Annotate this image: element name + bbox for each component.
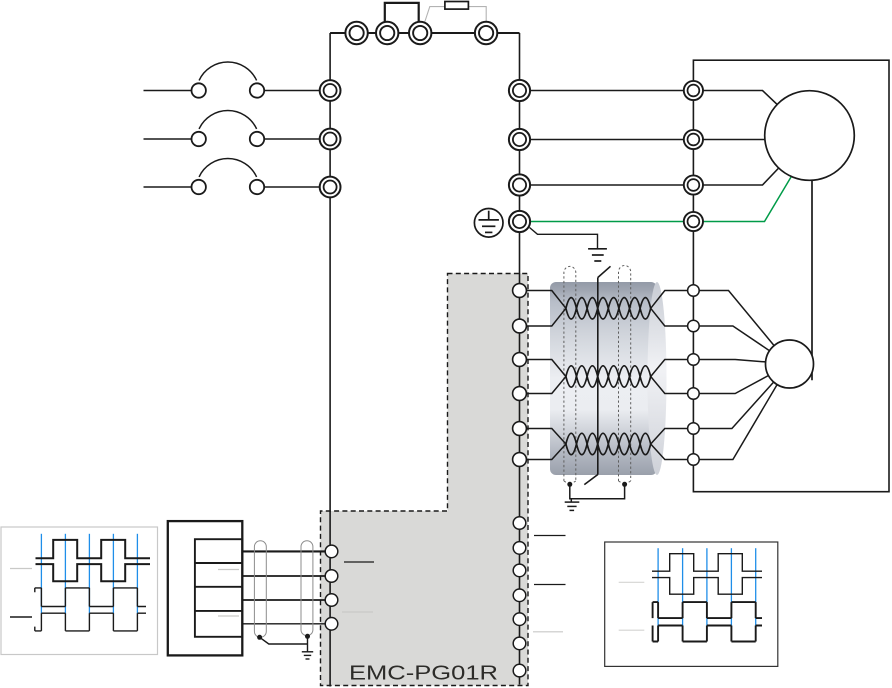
motor enclosure box [693,60,889,492]
protective earth symbol (circled) [474,209,503,238]
breaker contacts row 1 [192,83,206,97]
ground symbol at E wire [588,249,607,261]
wire: PG signal /B [520,376,769,394]
twisted pair coil row 3 [566,433,651,454]
DC bus terminal 1 [345,22,367,44]
wire: clamps to ground [260,636,308,652]
jumper between DC bus terminals 2 and 3 [385,3,419,33]
card pin label line 3 [534,535,566,537]
terminal W [509,174,530,195]
connector pin label line b [218,615,239,617]
wire: output phase V to motor [520,139,765,141]
wire: input line 1 (R) [144,90,320,92]
encoder connector pin block [195,539,242,637]
wire: PG signal B [520,360,766,377]
encoder terminal /B [688,388,700,400]
card terminal A [513,284,527,298]
wire: E terminal to earth [530,228,598,249]
waveform diagram box (right, card output) [605,542,778,666]
shield drain wire left (dashed loop) [564,266,576,483]
waveform B//B transition edges (left box) [41,588,137,631]
wire: output terminal column vertical [519,33,521,685]
breaker arc row 3 [199,159,257,177]
motor terminal E [684,212,703,231]
wire: PG power DCM [520,385,778,460]
DC bus terminal 3 [409,22,431,44]
terminal T [320,177,341,198]
card terminal /B [513,387,527,401]
encoder terminal VP [688,423,700,435]
brake resistor [445,2,469,10]
card output terminal 3 [513,564,526,577]
wire: output phase U to motor [520,91,778,105]
motor terminal U [684,81,703,100]
motor shaft [811,180,813,380]
svg-text:EMC-PG01R: EMC-PG01R [349,663,498,685]
card output terminal 2 [513,542,526,555]
breaker contacts row 2 [192,132,206,146]
shield drain wire right (dashed loop) [619,266,631,484]
shield grounding wire (solid) with switch [584,266,610,484]
DC bus terminal 4 [475,22,497,44]
motor terminal V [684,130,703,149]
card terminal B/O2 [325,618,338,631]
connector pin label line a [218,569,239,571]
encoder terminal A [688,285,700,297]
wire: output phase W to motor [520,168,779,185]
encoder connector housing [168,521,243,655]
ground symbol at shield [565,502,580,510]
wire: green ground wire E to motor [529,176,791,221]
twisted pair coil row 1 [566,298,651,319]
card pin label line 2 [342,611,373,613]
card output terminal 6 [513,637,526,650]
waveform B//B transition edges (right box) [658,602,756,641]
timing lines blue (left box) [41,534,137,614]
waveform diagram box (left, card input) [1,527,158,655]
clamp junction dot right [305,634,310,639]
encoder terminal DCM [688,454,700,466]
card terminal B/O [325,570,338,583]
card terminal A/O2 [325,594,338,607]
card pin label line 5 [533,631,563,633]
wire: connector to card A/O2 [242,599,325,601]
waveform legend line gray 1 (right box) [619,581,645,583]
card terminal DCM [513,453,527,467]
card terminal A/O [325,545,338,558]
encoder terminal /A [688,320,700,332]
wire: connector to card A/O [242,550,325,552]
card terminal B [513,353,527,367]
motor terminal W [684,175,703,194]
waveform A (left box) [36,540,151,558]
waveform legend line black (left box) [10,616,32,618]
ground symbol at clamps [302,652,313,659]
card output terminal 5 [513,613,526,626]
terminal S [320,129,341,150]
terminal E (ground) [509,211,530,232]
card terminal VP [513,422,527,436]
encoder terminal B [688,354,700,366]
wire: input line 3 (T) [144,186,320,188]
card output terminal 1 [513,517,526,530]
breaker contacts row 3 [192,180,206,194]
wire: top DC bus [330,32,519,34]
waveform A (right box) [652,554,762,572]
waveform B (right box) [653,602,762,618]
waveform legend line gray 2 (right box) [619,629,645,631]
terminal V [509,129,530,150]
shield drain junction dots [567,482,572,487]
timing lines blue (right box) [658,548,756,631]
waveform B (left box) [35,588,146,607]
terminal R [320,80,341,101]
wire: input line 2 (S) [144,138,320,140]
wire: PG signal A [520,291,775,346]
card pin label line 1 [344,561,374,563]
wire: brake resistor leads (gray) [425,7,486,22]
motor M [765,91,855,181]
wire: shield drains to ground [570,484,625,502]
card output terminal 4 [513,589,526,602]
card terminal /A [513,319,527,333]
breaker arc row 1 [199,62,257,80]
waveform /B (left box) [35,613,146,631]
EMC-PG01R card body (gray dashed region) [321,274,529,686]
cable clamp left [254,541,266,638]
cable clamp right [301,541,313,636]
terminal U [509,80,530,101]
wire: PG power VP [520,382,774,444]
breaker arc row 2 [199,111,257,129]
shielded cable shield (cylinder) [550,282,667,475]
twisted pair coil row 2 [566,366,651,387]
wire: PG signal /A [520,308,770,350]
wire: connector to card B/O [242,575,325,577]
wire: connector to card B/O2 [242,623,325,625]
waveform /A (left box) [36,564,151,581]
card output terminal 7 [513,664,526,677]
wire: left terminal column vertical [329,33,331,687]
encoder PG [766,340,814,388]
card pin label line 4 [534,584,566,586]
waveform legend line gray (left box) [10,568,32,570]
waveform /A (right box) [652,578,762,595]
clamp junction dot left [257,635,262,640]
DC bus terminal 2 [376,22,398,44]
waveform /B (right box) [653,626,762,642]
